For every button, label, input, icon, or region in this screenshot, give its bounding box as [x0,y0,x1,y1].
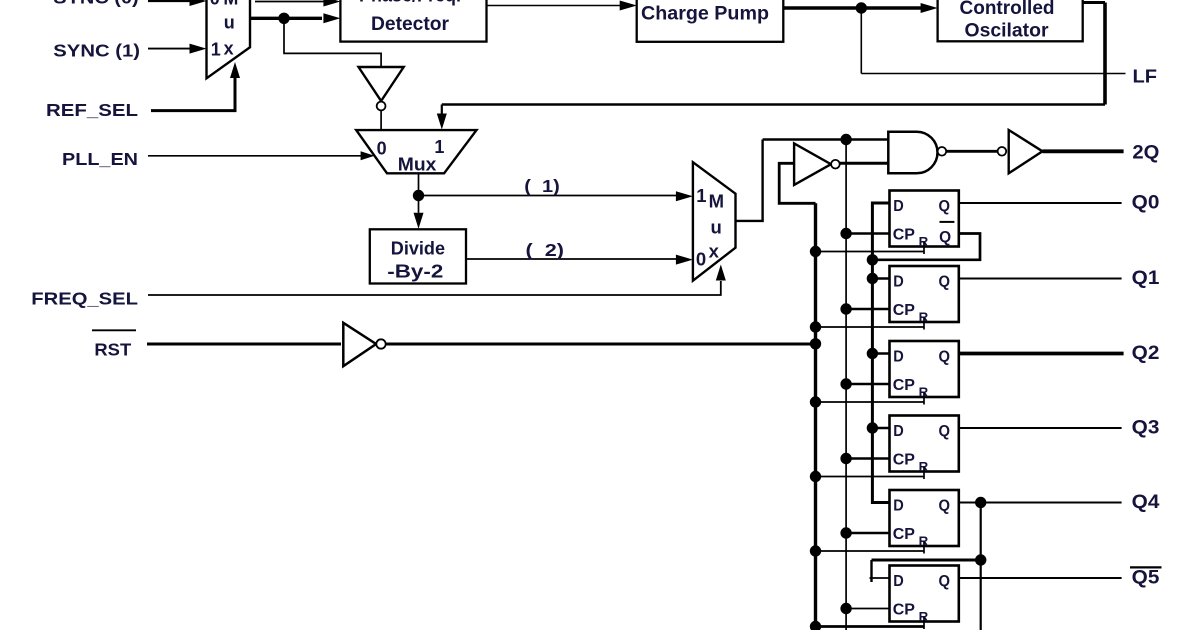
svg-text:1: 1 [696,185,706,206]
overline of Q5 label [1130,566,1162,568]
flip-flop FF4 (output Q4) [890,490,959,546]
arrowhead into Divide-By-2 U6 [414,213,424,229]
wire PFD U2 output to Charge Pump U3 [487,5,621,7]
svg-text:Charge Pump: Charge Pump [641,3,769,25]
inverter U5 output bubble [377,102,386,111]
svg-text:REF_SEL: REF_SEL [46,100,138,120]
block U6 Divide-By-2 [370,229,466,283]
wire VCO U4 output [1083,1,1105,4]
svg-text:CP: CP [893,452,916,469]
svg-text:CP: CP [893,602,916,619]
arrowhead into VCO U4 [921,3,938,13]
wire D rail to FF2 D [872,352,889,355]
svg-text:SYNC (0): SYNC (0) [53,0,138,8]
svg-text:Q: Q [939,573,951,590]
arrowhead FREQ_SEL into mux M3 select [716,265,726,281]
wire output Q0 [959,202,1122,204]
wire Q4 feedback horizontal to FF5 D [872,559,981,562]
inverter U5 (output of mux U1, inverted, to mux M2 input 0) [359,67,404,101]
svg-text:Q: Q [939,423,951,440]
arrowhead into mux M2 input 1 [437,114,447,130]
svg-text:D: D [893,423,904,440]
svg-text:D: D [893,349,904,366]
junction at FF4 Q output [975,497,986,508]
flip-flop FF0 (output Q0) [890,191,959,247]
svg-text:Mux: Mux [398,155,437,175]
junction D rail at FF2 D [867,348,878,359]
wire reset rail to FF1 R [816,326,925,328]
junction reset rail at FF2 R [810,396,821,407]
wire reset rail vertical [814,203,817,630]
svg-text:Oscilator: Oscilator [965,20,1049,42]
wire FF0 Qbar feedback to D rail [872,234,980,260]
svg-text:u: u [224,13,235,33]
wire output Q1 [959,278,1122,280]
svg-text:( 1): ( 1) [524,176,560,196]
block U2 Phase/Freq. Detector [340,0,486,42]
arrowhead REF_SEL into mux U1 select [230,62,240,78]
wire clock rail to FF5 CP [846,608,889,610]
junction clock rail at FF1 CP [840,303,851,314]
wire SYNC(1) to mux U1 input 1 [148,48,190,50]
inverter U10 (2Q output buffer) [1009,130,1043,173]
svg-text:0: 0 [210,0,220,9]
inverter U10 input bubble [998,147,1007,156]
wire FF1 R pin stub [923,318,925,330]
NAND gate U7 [888,132,937,174]
wire VCO feedback drop into mux M2 [441,105,443,115]
arrowhead into PFD U2 input [323,13,340,23]
junction reset rail at FF0 R [810,246,821,257]
wire FF2 R pin stub [923,393,925,405]
junction clock rail top [840,134,851,145]
mux U1 reference-select Mux [207,0,251,78]
wire branch mux U1 output to inverter U5 [284,18,381,66]
wire clock rail to FF3 CP [846,457,889,460]
svg-text:u: u [710,217,721,238]
flip-flop FF3 (output Q3) [890,416,959,472]
wire reset rail to FF3 R [816,476,925,478]
wire VCO output vertical down [1103,3,1107,105]
wire LF tap vertical [860,8,862,74]
junction reset rail at FF3 R [810,471,821,482]
junction on charge-pump output for LF tap [856,2,867,13]
svg-text:LF: LF [1133,66,1158,86]
svg-text:Controlled: Controlled [960,0,1055,19]
wire output Q5 [959,577,1122,579]
wire FF5 D drop [870,560,872,582]
wire clock rail to FF2 CP [846,383,889,386]
junction reset rail at RST wire [810,338,821,349]
wire REF_SEL to mux U1 select [151,77,235,111]
wire output Q2 [959,352,1124,356]
svg-text:D: D [893,573,904,590]
junction on mux U1 output wire [278,13,289,24]
junction D rail at FF0 Qbar feedback [867,254,878,265]
inverter U9 output bubble [831,160,840,169]
svg-text:M: M [223,0,238,9]
wire output Q4 [959,502,1122,504]
arrowhead SYNC(1) into mux U1 [190,44,207,54]
svg-text:D: D [893,274,904,291]
wire PLL_EN to mux M2 select [148,155,362,157]
svg-text:D: D [893,198,904,215]
svg-text:Q: Q [939,229,951,246]
svg-text:PLL_EN: PLL_EN [62,149,138,169]
svg-text:Q: Q [939,198,951,215]
flip-flop FF2 (output Q2) [890,341,959,397]
svg-text:M: M [709,190,724,211]
wire Q4 feedback vertical [980,503,982,631]
arrowhead into PFD U2 top input [323,0,340,7]
mux M2 PLL-enable Mux [356,130,476,173]
svg-text:CP: CP [893,526,916,543]
junction D rail at FF3 D [867,422,878,433]
svg-text:Q3: Q3 [1132,417,1160,438]
wire RST inverter output to reset rail [386,343,814,346]
wire feedback to PFD U2 top input [255,1,324,3]
svg-text:Phase/Freq.: Phase/Freq. [359,0,461,7]
svg-text:Q: Q [939,498,951,515]
junction clock rail at FF0 CP [840,228,851,239]
svg-text:D: D [893,498,904,515]
block U3 Charge Pump [637,0,784,42]
svg-text:2Q: 2Q [1132,142,1159,163]
wire FF0 R pin stub [923,242,925,254]
mux M3 frequency-select Mux [693,162,736,281]
junction D rail at FF1 D [867,273,878,284]
svg-text:Q4: Q4 [1132,492,1160,513]
wire mux U1 output to PFD U2 [250,17,322,20]
arrowhead SYNC(0) into mux U1 [190,0,207,6]
wire D rail to FF1 D [872,277,889,280]
svg-text:SYNC (1): SYNC (1) [53,41,140,61]
wire D rail to FF3 D [872,427,889,430]
svg-text:x: x [224,39,234,59]
inverter U9 (feeds NAND U7 lower input) [794,143,831,185]
svg-text:FREQ_SEL: FREQ_SEL [31,289,138,309]
wire reset rail to inverter U9 input [779,163,815,203]
flip-flop FF1 (output Q1) [890,266,959,322]
svg-text:CP: CP [893,377,916,394]
wire inverter U9 output to NAND U7 lower input [840,162,889,165]
NAND U7 output bubble [938,147,947,156]
wire ( 1) mux M2 output to mux M3 input 1 [419,195,677,197]
junction reset rail at FF5 R [810,621,821,632]
wire reset rail to FF0 R [816,251,925,253]
junction on mux M2 output [413,190,424,201]
arrowhead ( 1) into mux M3 [676,191,693,201]
wire 2Q output [1043,149,1124,153]
junction reset rail at FF1 R [810,321,821,332]
svg-text:Q: Q [939,274,951,291]
wire mux M3 output [736,140,763,221]
svg-text:Q2: Q2 [1132,343,1160,364]
svg-text:CP: CP [893,227,916,244]
wire ( 2) Divide-By-2 output to mux M3 input 0 [466,258,676,260]
svg-text:Q5: Q5 [1132,567,1160,588]
wire SYNC(0) to mux U1 input 0 [148,0,190,2]
wire clock rail vertical [845,140,847,631]
svg-text:CP: CP [893,302,916,319]
wire clock rail to FF0 CP [846,232,889,235]
svg-text:Q1: Q1 [1132,268,1160,289]
wire reset rail to FF2 R [816,401,925,403]
wire NAND U7 output to inverter U10 [946,150,997,153]
svg-text:-By-2: -By-2 [387,261,443,282]
overline of RST label [92,329,136,331]
inverter U8 output bubble [376,339,385,348]
svg-text:Divide: Divide [391,238,445,259]
wire FREQ_SEL to mux M3 select [148,281,721,295]
wire Charge Pump U3 output to VCO U4 [783,6,921,9]
svg-text:0: 0 [377,139,387,159]
junction reset rail at FF4 R [810,545,821,556]
wire FF4 R pin stub [923,542,925,554]
arrowhead into Charge Pump U3 [620,1,637,11]
wire clock to NAND U7 top input [763,138,889,141]
junction clock rail at FF3 CP [840,453,851,464]
svg-text:( 2): ( 2) [526,240,565,260]
wire D rail (FF0 D to FF4 D) [872,203,889,503]
wire inverter U5 output to mux M2 input 0 [380,110,382,130]
wire mux M2 output down [418,173,420,213]
arrowhead ( 2) into mux M3 [676,255,693,265]
svg-text:Q0: Q0 [1132,192,1160,213]
svg-text:1: 1 [211,40,221,60]
svg-text:Q: Q [939,349,951,366]
svg-text:Detector: Detector [371,13,449,35]
block U4 Voltage Controlled Oscilator [938,0,1083,41]
wire FF3 R pin stub [923,467,925,479]
wire clock rail to FF4 CP [846,532,889,535]
wire reset rail to FF5 R [816,625,925,628]
junction Q4 feedback corner [975,554,986,565]
wire output Q3 [959,427,1122,429]
wire VCO feedback horizontal to mux M2 [442,103,1105,106]
wire LF tap horizontal to LF pin [861,73,1125,75]
inverter U8 RST buffer [343,323,376,366]
svg-text:RST: RST [94,340,131,360]
wire FF5 R pin stub [923,617,925,629]
junction clock rail at FF4 CP [840,527,851,538]
wire reset rail to FF4 R [816,550,925,552]
flip-flop FF5 (output Q5) [890,566,959,622]
wire into FF5 D [870,577,890,579]
junction clock rail at FF2 CP [840,378,851,389]
svg-text:x: x [709,241,720,262]
arrowhead PLL_EN into mux M2 [361,151,375,160]
wire RST to inverter U8 [147,343,341,346]
junction clock rail at FF5 CP [840,603,851,614]
svg-text:0: 0 [696,248,706,269]
overline of FF0 Qbar pin label [940,221,955,223]
wire clock rail to FF1 CP [846,308,889,311]
